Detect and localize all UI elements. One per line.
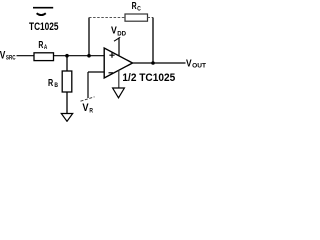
svg-text:A: A	[44, 44, 48, 51]
capacitor bypass symbol	[33, 8, 53, 15]
resistor RA	[34, 40, 54, 61]
node VSRC	[0, 49, 16, 61]
resistor RC	[125, 1, 148, 21]
wire feedback up	[88, 18, 90, 56]
ground under RB	[61, 114, 72, 122]
wire feedback down to output	[152, 18, 154, 64]
node VOUT	[186, 58, 206, 69]
svg-text:TC1025: TC1025	[29, 21, 59, 33]
svg-text:OUT: OUT	[192, 62, 206, 69]
resistor RB	[48, 71, 72, 92]
svg-text:V: V	[82, 102, 89, 114]
svg-text:R: R	[38, 40, 43, 51]
junction node at RB tap	[65, 54, 69, 58]
svg-text:R: R	[48, 78, 53, 89]
wire minus input down to VR	[87, 72, 89, 98]
junction node at feedback tap	[87, 54, 91, 58]
wire VSRC to RA	[17, 55, 35, 57]
wire feedback top run to RC	[89, 17, 125, 19]
ground under op-amp	[113, 88, 125, 98]
junction node at output	[151, 61, 155, 65]
svg-text:B: B	[54, 82, 58, 89]
node VR terminal slash	[81, 97, 95, 101]
wire output	[133, 62, 186, 64]
svg-text:C: C	[137, 6, 141, 13]
wire down to RB	[66, 56, 68, 71]
wire minus input horizontal	[88, 71, 104, 73]
svg-text:1/2 TC1025: 1/2 TC1025	[122, 72, 175, 84]
op-amp U1 1/2 TC1025	[104, 48, 175, 84]
label VR	[82, 102, 93, 115]
svg-text:DD: DD	[117, 30, 126, 37]
wire RC to output corner	[148, 17, 154, 19]
wire VSS to ground	[118, 70, 120, 88]
svg-text:SRC: SRC	[6, 55, 16, 62]
wire RB to ground	[66, 92, 68, 114]
svg-text:R: R	[89, 108, 93, 115]
wire RA to op-amp plus input	[54, 55, 105, 57]
svg-text:R: R	[132, 1, 137, 12]
power VDD	[111, 25, 126, 56]
svg-text:V: V	[186, 58, 192, 69]
